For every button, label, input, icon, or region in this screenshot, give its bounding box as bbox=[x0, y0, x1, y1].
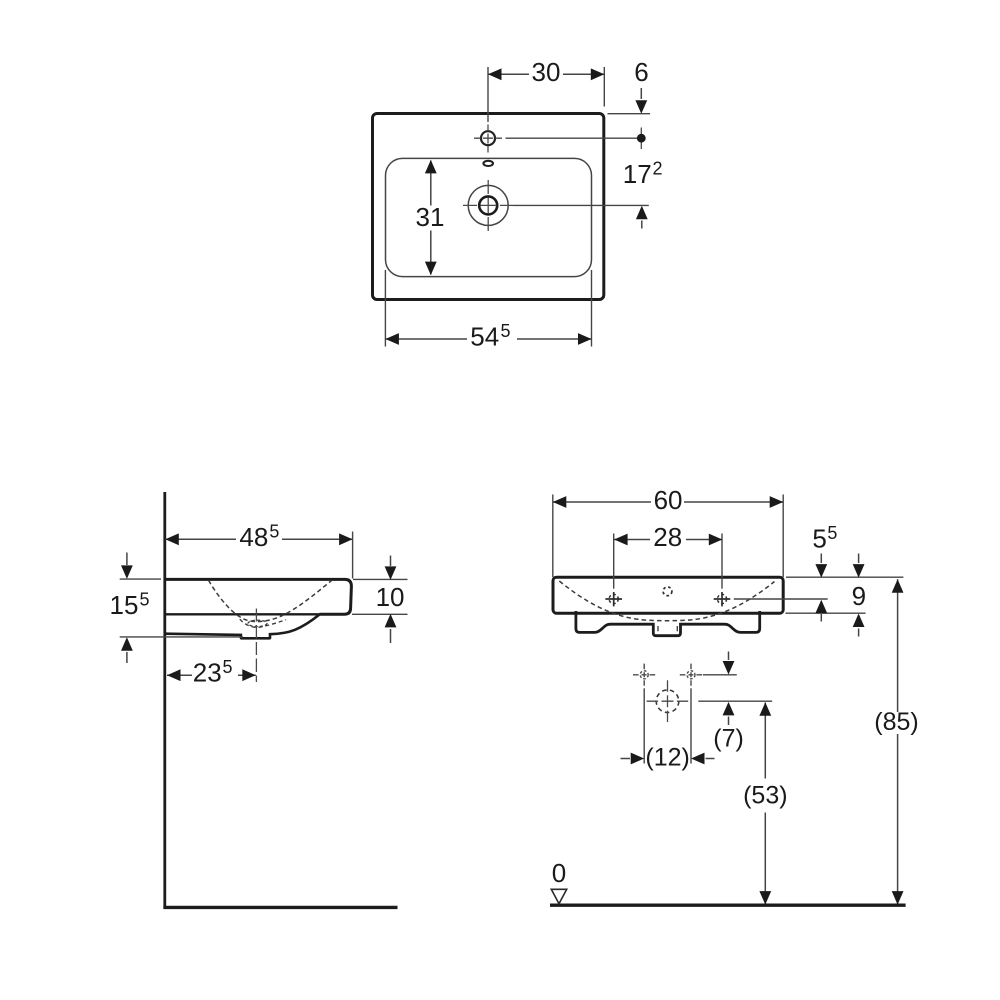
svg-text:5: 5 bbox=[812, 524, 826, 554]
dimension 53 arrows bbox=[759, 702, 771, 716]
svg-text:10: 10 bbox=[376, 582, 405, 612]
drain tab inner ticks bbox=[658, 626, 677, 631]
svg-text:30: 30 bbox=[532, 57, 561, 87]
dimension 31 arrows bbox=[425, 160, 437, 174]
overflow hole (front) bbox=[663, 587, 672, 596]
leader line drain to right bbox=[514, 204, 649, 206]
svg-text:5: 5 bbox=[140, 590, 150, 610]
dimension 10 bottom arrow bbox=[390, 629, 392, 643]
svg-text:(53): (53) bbox=[743, 782, 787, 810]
pedestal skirt (front) bbox=[576, 611, 760, 636]
dimension 5-5 bottom arrow bbox=[820, 614, 822, 622]
svg-text:48: 48 bbox=[239, 522, 268, 552]
right fixing hole bbox=[717, 594, 726, 603]
inner basin (plan) bbox=[386, 158, 592, 276]
fixing hole reference line right bbox=[734, 598, 828, 600]
dimension 54-5 extension lines bbox=[384, 270, 386, 347]
dimension 30 arrows bbox=[488, 68, 502, 80]
dimension 9 top arrow bbox=[858, 554, 860, 564]
svg-text:5: 5 bbox=[827, 523, 837, 543]
dimension 15-5 bottom arrow bbox=[126, 652, 128, 663]
dimension 54-5 arrows bbox=[385, 333, 399, 345]
svg-text:5: 5 bbox=[223, 657, 233, 677]
dimension 48-5 line bbox=[165, 538, 352, 540]
washbasin outer body (plan) bbox=[373, 114, 604, 300]
dimension 31 line bbox=[430, 161, 432, 275]
drain outer circle bbox=[468, 185, 508, 225]
svg-text:6: 6 bbox=[634, 57, 648, 87]
bottom edge extension line right (front) bbox=[785, 612, 865, 614]
dimension 54-5 line bbox=[385, 338, 591, 340]
left fixing hole bbox=[609, 594, 618, 603]
datum triangle bbox=[551, 889, 566, 903]
dimension 28 arrows bbox=[614, 534, 628, 546]
tap hole bbox=[481, 131, 495, 145]
svg-text:(12): (12) bbox=[645, 744, 689, 772]
dimension 17-2 arrow up to drain line bbox=[641, 221, 643, 229]
top edge extension right (side) bbox=[353, 578, 408, 580]
trap centerlines bbox=[667, 680, 669, 722]
dimension 60 line bbox=[553, 501, 783, 503]
svg-text:23: 23 bbox=[193, 658, 222, 688]
basin body profile (side) bbox=[165, 579, 352, 614]
trap connection dashed circle bbox=[656, 690, 679, 713]
washbasin body (front) bbox=[553, 577, 783, 613]
dimension 23-5 line bbox=[167, 674, 256, 676]
svg-text:5: 5 bbox=[269, 521, 279, 541]
dimension 53 line bbox=[764, 703, 766, 906]
dimension 15-5 bottom reference line bbox=[120, 636, 243, 638]
svg-text:9: 9 bbox=[852, 581, 866, 611]
overflow slot bbox=[483, 161, 493, 166]
dimension 30 extension lines bbox=[487, 67, 489, 122]
dimension 60 arrows bbox=[553, 496, 567, 508]
drain recess dashed ellipse (side) bbox=[248, 620, 267, 626]
fixing hole extension lines up bbox=[613, 534, 615, 589]
right supply connection cross bbox=[687, 671, 695, 679]
dimension 10 top arrow bbox=[390, 556, 392, 567]
top edge extension line right bbox=[608, 113, 651, 115]
dimension 5-5 top arrow bbox=[820, 554, 822, 564]
bottom edge extension right (side) bbox=[352, 613, 408, 615]
drain centerline vertical bbox=[487, 180, 489, 231]
supply reference line bbox=[703, 674, 737, 676]
svg-text:0: 0 bbox=[552, 858, 566, 888]
dimension 15-5 top reference line bbox=[120, 578, 161, 580]
svg-text:(7): (7) bbox=[713, 725, 744, 753]
svg-text:5: 5 bbox=[501, 321, 511, 341]
basin bottom dashed contour (side) bbox=[240, 619, 286, 627]
supply extension lines down bbox=[643, 688, 645, 763]
tap hole centerlines bbox=[474, 137, 503, 139]
svg-text:17: 17 bbox=[623, 159, 652, 189]
svg-text:2: 2 bbox=[653, 159, 663, 179]
dimension 28 line bbox=[614, 539, 722, 541]
drain inner circle bbox=[479, 196, 497, 214]
dimension 7 bottom arrow bbox=[728, 717, 730, 726]
svg-text:15: 15 bbox=[110, 590, 139, 620]
svg-text:31: 31 bbox=[416, 202, 445, 232]
svg-text:54: 54 bbox=[470, 322, 499, 352]
wall line bbox=[163, 492, 166, 909]
dimension 12 line and arrows bbox=[621, 758, 631, 760]
dimension 15-5 top arrow bbox=[126, 553, 128, 566]
dimension 9 bottom arrow bbox=[858, 629, 860, 637]
rim bottom edge (side) bbox=[165, 613, 344, 615]
drain centerline horizontal bbox=[463, 204, 514, 206]
dimension 60 extension lines bbox=[552, 495, 554, 578]
floor line (front) bbox=[550, 904, 906, 907]
svg-text:28: 28 bbox=[653, 522, 682, 552]
dimension 6 arrow bbox=[640, 88, 642, 99]
dimension 48-5 arrows bbox=[165, 533, 179, 545]
dimension 85 arrows bbox=[892, 579, 904, 593]
underside profile with drain boss (side) bbox=[165, 615, 320, 639]
dimension 23-5 arrows bbox=[167, 669, 181, 681]
dimension 48-5 extension line bbox=[352, 532, 354, 579]
drain centerline (side) bbox=[255, 609, 257, 683]
svg-text:60: 60 bbox=[654, 485, 683, 515]
left supply connection cross bbox=[640, 671, 648, 679]
dimension 30 line bbox=[488, 73, 604, 75]
dimension 85 line bbox=[897, 579, 899, 905]
basin interior dashed contour (side) bbox=[209, 580, 332, 621]
dimension 7 top arrow bbox=[728, 652, 730, 661]
top edge extension line right (front) bbox=[786, 576, 903, 578]
floor line (side view) bbox=[163, 906, 397, 909]
svg-text:(85): (85) bbox=[874, 708, 918, 736]
basin interior dashed contour (front) bbox=[559, 581, 774, 621]
trap reference line bbox=[698, 700, 772, 702]
dimension dot at tap level bbox=[640, 128, 642, 150]
leader line tap hole to dot bbox=[506, 137, 638, 139]
